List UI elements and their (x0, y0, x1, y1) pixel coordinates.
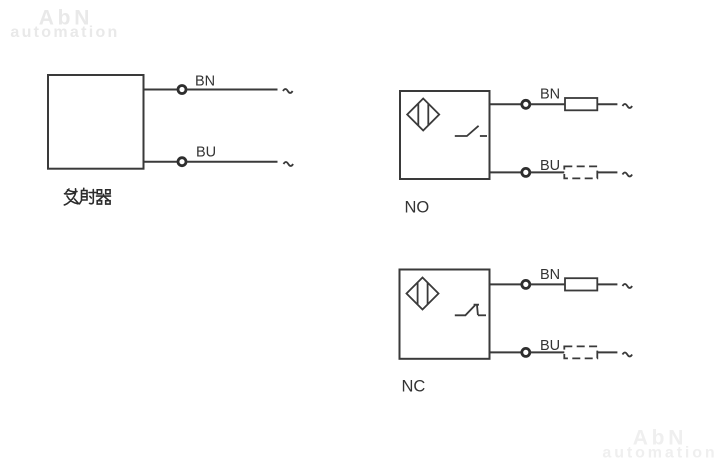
wire BN NC load to AC (597, 283, 617, 285)
svg-text:NC: NC (402, 378, 426, 396)
wire BN NC (box to terminal) (490, 283, 522, 285)
wire BU transmitter to AC (187, 161, 278, 163)
wire BU NO (box to terminal) (490, 171, 522, 173)
NO sensor box (400, 91, 490, 179)
NO contact symbol (455, 126, 487, 136)
AC tilde BN NO (623, 104, 633, 108)
svg-text:automation: automation (602, 445, 717, 462)
AC tilde BN NC (623, 284, 633, 288)
NC contact symbol (455, 305, 486, 316)
svg-text:automation: automation (10, 24, 119, 41)
terminal circle BU transmitter (178, 158, 186, 166)
wire BU NO load to AC (597, 171, 617, 173)
terminal circle BN NC (522, 280, 530, 288)
AC tilde BU NO (623, 173, 633, 177)
terminal circle BU NC (522, 348, 530, 356)
NO sensor diamond symbol (407, 99, 439, 131)
dashed load rect BU NC (564, 346, 597, 358)
load resistor rect BN NC (565, 278, 597, 290)
AC tilde BN transmitter (283, 89, 293, 93)
wire BN transmitter to AC (187, 89, 278, 91)
wire BN transmitter (box to terminal) (144, 89, 178, 91)
wire BN NO (box to terminal) (490, 103, 522, 105)
发 (64, 189, 78, 205)
svg-text:BN: BN (540, 87, 560, 103)
AC tilde BU NC (623, 353, 633, 357)
NC sensor box (400, 270, 490, 359)
器 (97, 190, 111, 204)
wire BU NC load to AC (597, 351, 617, 353)
svg-text:NO: NO (405, 199, 430, 217)
svg-text:BN: BN (195, 74, 215, 90)
svg-text:BN: BN (540, 267, 560, 283)
wire BU NC (box to terminal) (490, 351, 522, 353)
watermark top-left "AbN automation" (10, 7, 119, 42)
watermark bottom-right "AbN automation" (602, 427, 717, 462)
terminal circle BN transmitter (178, 86, 186, 94)
terminal circle BN NO (522, 100, 530, 108)
wire BN NO terminal to load (530, 103, 565, 105)
terminal circle BU NO (522, 168, 530, 176)
AC tilde BU transmitter (284, 162, 294, 166)
wire BU transmitter (box to terminal) (144, 161, 178, 163)
transmitter box 发射器 (48, 75, 144, 169)
wire BU NO terminal to dashed load (530, 171, 564, 173)
wire BU NC terminal to dashed load (530, 351, 564, 353)
wire BN NO load to AC (597, 103, 617, 105)
射 (80, 188, 96, 204)
NC sensor diamond symbol (407, 278, 439, 310)
wire BN NC terminal to load (530, 283, 565, 285)
label 发射器 (drawn glyphs) (64, 188, 110, 205)
svg-text:BU: BU (196, 145, 216, 161)
dashed load rect BU NO (564, 166, 597, 178)
load resistor rect BN NO (565, 98, 597, 110)
